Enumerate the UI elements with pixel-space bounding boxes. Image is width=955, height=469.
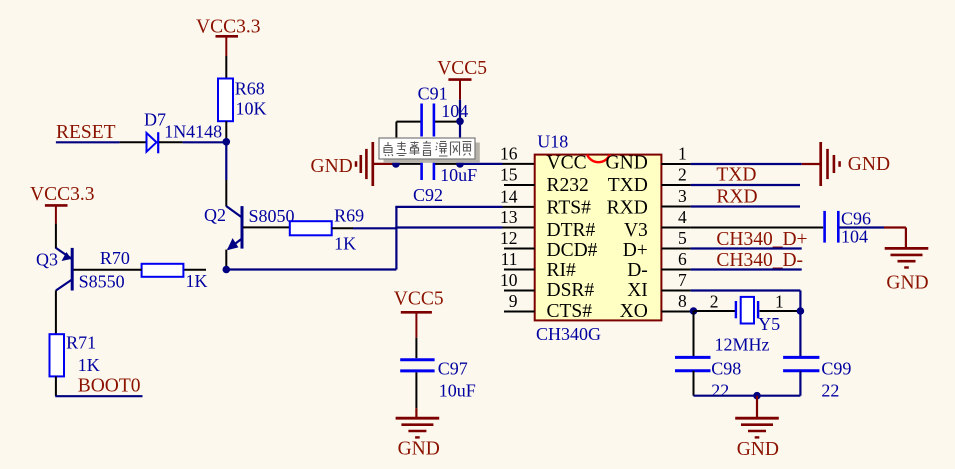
- U18 pin 5 D+: [623, 228, 691, 261]
- svg-text:15: 15: [500, 165, 518, 185]
- svg-text:10uF: 10uF: [439, 381, 476, 401]
- svg-text:XI: XI: [627, 280, 648, 301]
- U18 pin 1 GND: [606, 144, 691, 174]
- svg-text:GND: GND: [737, 439, 779, 460]
- ground crystal: [735, 418, 779, 460]
- svg-text:104: 104: [441, 101, 468, 121]
- svg-text:RI#: RI#: [547, 260, 577, 281]
- wire node G to C99: [799, 311, 801, 357]
- net label RXD: [691, 186, 800, 207]
- capacitor C99: [783, 357, 851, 400]
- node A junction: [223, 138, 231, 146]
- svg-text:1N4148: 1N4148: [164, 122, 222, 142]
- node F junction: [690, 307, 698, 315]
- svg-text:DTR#: DTR#: [547, 220, 596, 241]
- tooltip 点击查看源网页: [379, 138, 480, 163]
- node E junction: [456, 160, 464, 168]
- svg-text:1K: 1K: [334, 233, 356, 253]
- U18 pin 13 DTR#: [500, 207, 596, 241]
- resistor R68: [218, 78, 267, 121]
- svg-text:1: 1: [678, 144, 687, 164]
- svg-text:TXD: TXD: [608, 175, 648, 196]
- svg-text:R71: R71: [66, 332, 96, 352]
- wire node E to U18 pin 16: [460, 163, 535, 165]
- net label RESET: [56, 122, 120, 143]
- svg-text:14: 14: [500, 187, 518, 207]
- svg-text:C97: C97: [438, 358, 468, 378]
- U18 pin 16 VCC: [500, 144, 587, 174]
- wire R70 to node B: [183, 269, 206, 271]
- svg-text:VCC5: VCC5: [394, 288, 444, 309]
- transistor Q2 S8050: [204, 205, 295, 269]
- wire C99 to bottom rail: [799, 371, 801, 396]
- svg-text:1K: 1K: [78, 355, 100, 375]
- svg-text:CH340_D+: CH340_D+: [716, 229, 807, 250]
- wire VCC3.3 to R68: [225, 56, 227, 79]
- wire to U18 pin 13: [395, 226, 534, 228]
- svg-text:8: 8: [678, 291, 687, 311]
- svg-text:BOOT0: BOOT0: [78, 376, 141, 397]
- svg-text:D-: D-: [627, 260, 648, 281]
- capacitor C91: [396, 84, 468, 137]
- svg-text:22: 22: [821, 381, 839, 401]
- svg-text:D+: D+: [623, 240, 648, 261]
- svg-text:R232: R232: [547, 175, 589, 196]
- svg-text:4: 4: [678, 207, 687, 227]
- svg-text:D7: D7: [144, 109, 166, 129]
- svg-text:VCC3.3: VCC3.3: [30, 184, 94, 205]
- svg-text:2: 2: [678, 165, 687, 185]
- svg-text:5: 5: [678, 228, 687, 248]
- node B junction: [223, 266, 231, 274]
- U18 pin 7 XI: [627, 270, 690, 301]
- U18 notch: [587, 155, 610, 163]
- svg-text:VCC3.3: VCC3.3: [196, 17, 260, 38]
- svg-text:1: 1: [775, 292, 784, 312]
- wire D7 to node A: [159, 141, 226, 143]
- wire pin 8 to node F: [691, 310, 694, 312]
- svg-text:C96: C96: [841, 208, 871, 228]
- crystal Y5: [694, 292, 801, 355]
- wire pin 1 to GND: [691, 163, 802, 165]
- wire VCC5 to node C: [459, 100, 461, 122]
- wire bottom rail: [694, 395, 801, 397]
- svg-text:R70: R70: [100, 248, 130, 268]
- power VCC3.3 top: [196, 17, 260, 57]
- U18 pin 15 R232: [500, 165, 589, 196]
- svg-text:104: 104: [841, 226, 868, 246]
- svg-text:9: 9: [509, 291, 518, 311]
- svg-text:6: 6: [678, 249, 687, 269]
- svg-text:CH340G: CH340G: [536, 324, 601, 344]
- svg-text:22: 22: [711, 381, 729, 401]
- svg-text:RTS#: RTS#: [547, 197, 592, 218]
- wire net row to node B: [226, 268, 396, 270]
- resistor R71: [50, 332, 100, 376]
- U18 pin 11 RI#: [501, 249, 576, 281]
- wire RESET to D7: [120, 141, 147, 143]
- svg-text:CH340_D-: CH340_D-: [716, 250, 803, 271]
- wire node F to C98: [693, 311, 695, 357]
- wire VCC3.3 to Q3 emitter: [55, 224, 57, 249]
- wire R71 to BOOT0: [55, 376, 57, 396]
- svg-text:10: 10: [500, 270, 518, 290]
- svg-text:U18: U18: [537, 131, 568, 151]
- svg-text:3: 3: [678, 186, 687, 206]
- diode D7 1N4148: [144, 109, 222, 153]
- power VCC5 bottom: [394, 288, 444, 337]
- net label CH340_D-: [691, 250, 803, 271]
- svg-text:VCC5: VCC5: [437, 58, 487, 79]
- power GND right: [802, 142, 890, 186]
- U18 pin 4 V3: [624, 207, 691, 241]
- svg-text:V3: V3: [624, 220, 648, 241]
- ground C97: [396, 418, 440, 460]
- U18 pin 12 DCD#: [500, 228, 598, 261]
- svg-text:GND: GND: [606, 153, 648, 174]
- transistor Q3 S8550: [36, 248, 125, 334]
- wire C96 to GND: [840, 228, 906, 249]
- svg-text:12MHz: 12MHz: [715, 334, 770, 354]
- U18 pin 6 D-: [627, 249, 690, 281]
- svg-text:RXD: RXD: [716, 186, 757, 207]
- wire C91 left leg: [395, 122, 397, 164]
- svg-text:C99: C99: [821, 359, 851, 379]
- svg-text:16: 16: [500, 144, 518, 164]
- svg-text:R69: R69: [334, 206, 364, 226]
- power GND left: [311, 142, 395, 186]
- U18 pin 14 RTS#: [500, 187, 591, 219]
- U18 pin 9 CTS#: [504, 291, 592, 322]
- node D junction: [392, 160, 400, 168]
- svg-text:DCD#: DCD#: [547, 240, 598, 261]
- wire node C to node D: [459, 121, 461, 164]
- wire C98 to bottom rail: [693, 371, 695, 396]
- U18 pin 2 TXD: [608, 165, 691, 196]
- capacitor C98: [675, 357, 741, 400]
- svg-text:C92: C92: [413, 185, 443, 205]
- wire node H to GND: [756, 396, 758, 419]
- svg-text:11: 11: [501, 249, 518, 269]
- svg-text:Q3: Q3: [36, 250, 58, 270]
- svg-text:10K: 10K: [236, 99, 267, 119]
- op-amp U18 body: [535, 131, 662, 344]
- wire to U18 pin 14: [395, 206, 534, 208]
- net label BOOT0: [55, 376, 142, 397]
- node C junction: [456, 118, 464, 126]
- U18 pin 3 RXD: [607, 186, 691, 218]
- wire R69 to net vertical: [332, 227, 397, 229]
- svg-text:CTS#: CTS#: [547, 301, 593, 322]
- wire node A to Q2 collector: [225, 142, 227, 207]
- svg-text:2: 2: [710, 292, 719, 312]
- capacitor C96: [691, 208, 871, 246]
- svg-text:Q2: Q2: [204, 205, 226, 225]
- svg-text:GND: GND: [398, 439, 440, 460]
- svg-text:TXD: TXD: [716, 164, 756, 185]
- U18 pin 8 XO: [620, 291, 691, 322]
- svg-text:C98: C98: [711, 359, 741, 379]
- net label TXD: [691, 164, 800, 185]
- U18 pin 10 DSR#: [500, 270, 594, 301]
- svg-text:7: 7: [678, 270, 687, 290]
- svg-text:XO: XO: [620, 301, 648, 322]
- power VCC5 top: [437, 58, 487, 100]
- svg-text:GND: GND: [848, 154, 890, 175]
- net label CH340_D+: [691, 229, 808, 250]
- svg-text:Y5: Y5: [758, 314, 780, 334]
- svg-text:VCC: VCC: [547, 153, 587, 174]
- wire R68 to node: [225, 121, 227, 142]
- svg-text:DSR#: DSR#: [547, 280, 595, 301]
- svg-text:10uF: 10uF: [440, 165, 477, 185]
- svg-text:GND: GND: [311, 156, 353, 177]
- svg-text:RXD: RXD: [607, 197, 648, 218]
- wire pin 7 to crystal: [691, 291, 801, 312]
- ground C96: [885, 248, 929, 293]
- resistor R70: [100, 248, 208, 291]
- svg-text:13: 13: [500, 207, 518, 227]
- svg-text:RESET: RESET: [56, 122, 116, 143]
- svg-text:12: 12: [500, 228, 518, 248]
- wire VCC5 to C97: [415, 338, 417, 359]
- resistor R69: [290, 206, 364, 254]
- capacitor C97: [400, 358, 476, 400]
- svg-text:R68: R68: [235, 78, 265, 98]
- node G junction: [797, 307, 805, 315]
- svg-text:1K: 1K: [186, 271, 208, 291]
- node H junction: [753, 392, 761, 400]
- wire C97 to GND: [415, 372, 417, 418]
- svg-text:GND: GND: [886, 273, 928, 294]
- svg-text:S8550: S8550: [79, 272, 125, 292]
- capacitor C92: [396, 147, 477, 206]
- wire net vertical x398: [395, 207, 397, 270]
- wire Q3 base to R70: [73, 269, 142, 271]
- svg-text:S8050: S8050: [249, 206, 295, 226]
- power VCC3.3 left: [30, 184, 94, 224]
